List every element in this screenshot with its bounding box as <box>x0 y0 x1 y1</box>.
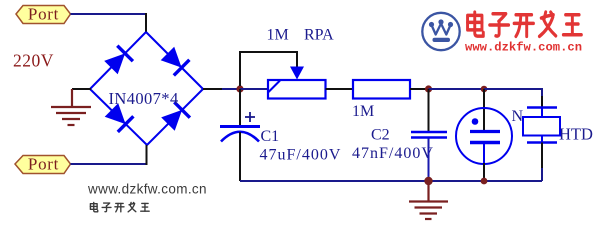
logo text: 王 <box>563 15 581 35</box>
wire: HTD bottom to rail <box>541 143 543 169</box>
wire: bottom port to bridge bottom vertex <box>71 163 147 165</box>
wire: RPA to resistor R1 <box>326 88 354 90</box>
svg-text:www.dzkfw.com.cn: www.dzkfw.com.cn <box>465 41 582 55</box>
logo text: 发 <box>539 12 555 36</box>
diode D4 (bridge bottom-left) <box>105 103 134 132</box>
wire: C1 down to bottom rail <box>239 132 241 181</box>
junction: node C <box>481 86 488 93</box>
wire: node A to RPA body <box>240 88 268 90</box>
buzzer HTD <box>523 108 560 143</box>
potentiometer RPA body <box>268 80 326 99</box>
wire: node C to HTD top <box>484 89 542 96</box>
wire: bridge side bottom-right <box>147 89 203 145</box>
svg-text:47uF/400V: 47uF/400V <box>260 147 342 164</box>
svg-text:HTD: HTD <box>559 125 593 144</box>
resistor R1 body <box>353 80 410 99</box>
wire: stub to node A <box>222 88 240 90</box>
wire: node B down to C2 <box>428 89 430 131</box>
svg-text:Port: Port <box>28 155 59 174</box>
wire: bridge left vertex to ground stem <box>72 88 91 90</box>
potentiometer RPA wiper arrow <box>290 67 304 80</box>
wire: node C down to neon lamp <box>483 89 485 131</box>
wire: bridge side top-right <box>146 32 203 89</box>
svg-text:IN4007*4: IN4007*4 <box>109 89 179 108</box>
junction: node A <box>236 85 243 92</box>
junction: node B <box>425 85 432 92</box>
wire: vertical drop into bridge top vertex <box>145 13 147 33</box>
svg-text:N: N <box>512 108 524 125</box>
wire: node A up and over to RPA wiper <box>240 52 297 86</box>
wire: node B to node C <box>429 88 485 90</box>
capacitor C1 (electrolytic) <box>220 112 260 142</box>
svg-text:220V: 220V <box>13 51 54 71</box>
watermark text: 子 <box>102 203 111 212</box>
watermark text: 王 <box>141 203 149 211</box>
logo text: 子 <box>490 14 509 36</box>
wire: top port to bridge top corner <box>71 13 147 15</box>
diode D1 (bridge top-right) <box>161 47 190 76</box>
ground (output rail) <box>409 183 448 219</box>
logo: W emblem circle <box>422 13 459 50</box>
svg-text:1M: 1M <box>267 27 289 44</box>
junction: node E (rail / neon) <box>481 178 488 185</box>
port P2 (AC input, bottom) <box>15 155 71 174</box>
diode D2 (bridge bottom-right) <box>161 102 190 131</box>
svg-text:RPA: RPA <box>304 27 334 44</box>
svg-text:1M: 1M <box>352 103 374 120</box>
port P1 (AC input, top) <box>16 5 71 24</box>
logo text: 电 <box>468 12 484 36</box>
wire: bridge side left-top <box>90 32 146 89</box>
diode D3 (bridge top-left) <box>104 46 133 75</box>
svg-text:www.dzkfw.com.cn: www.dzkfw.com.cn <box>87 182 207 197</box>
svg-text:C2: C2 <box>371 127 390 144</box>
wire: C2 down to rail junction D <box>428 139 430 182</box>
watermark text: 发 <box>128 202 136 211</box>
svg-text:Port: Port <box>28 5 59 24</box>
neon lamp N <box>456 108 512 164</box>
svg-text:C1: C1 <box>261 128 280 145</box>
logo text: 开 <box>514 15 533 37</box>
junction: node D (rail / C2 / ground) <box>424 177 432 185</box>
capacitor C2 <box>411 132 447 138</box>
watermark text: 开 <box>115 203 124 211</box>
wire: node A down to C1 <box>239 89 241 126</box>
wire: neon lamp to rail junction E <box>483 163 485 181</box>
wire: bottom rail <box>240 180 542 182</box>
svg-text:47nF/400V: 47nF/400V <box>352 145 434 162</box>
wire: bridge side left-bottom <box>90 89 147 145</box>
wire: R1 to node B <box>410 88 429 90</box>
watermark text: 电 <box>90 202 97 211</box>
wire: bridge right vertex to node A (black stub) <box>203 88 222 90</box>
wire: vertical rise into bridge bottom vertex <box>146 145 148 165</box>
ground (AC side) <box>51 89 91 125</box>
